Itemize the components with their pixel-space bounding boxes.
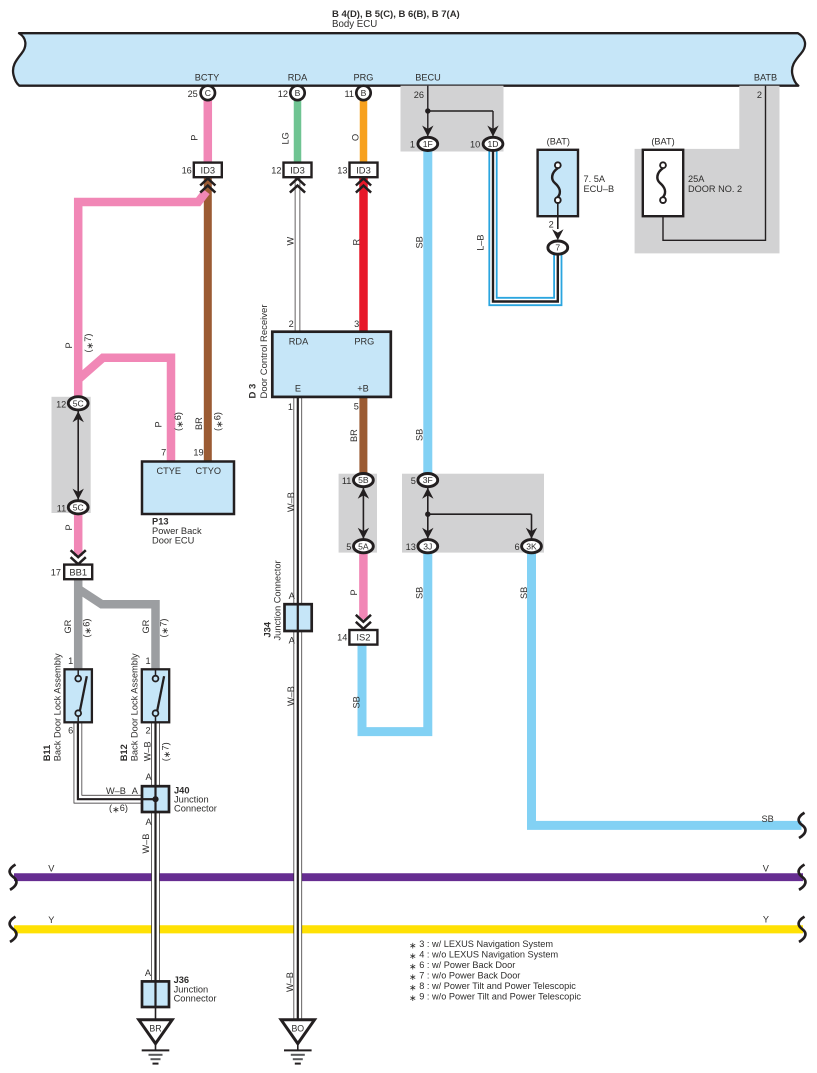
svg-text:ID3: ID3 [290, 164, 305, 175]
svg-text:SB: SB [414, 429, 424, 441]
svg-text:B11: B11 [42, 745, 52, 762]
svg-text:5C: 5C [73, 502, 84, 512]
svg-text:3K: 3K [526, 541, 537, 551]
svg-text:IS2: IS2 [356, 632, 370, 643]
connector BB1 pin 17 [64, 565, 92, 580]
break symbol SB right [799, 813, 806, 838]
svg-text:5: 5 [411, 476, 416, 486]
svg-text:12: 12 [56, 399, 66, 409]
connector oval 7 [548, 241, 568, 254]
break symbol V right [799, 865, 806, 890]
connector oval 5C pin 12 [56, 397, 88, 410]
component B11 Back Door Lock Assembly [65, 669, 92, 722]
fuse 7.5A ECU-B [538, 150, 578, 216]
svg-text:A: A [289, 635, 296, 645]
wire P from 5C pin 11 to BB1 [74, 514, 83, 556]
svg-text:D 3: D 3 [247, 384, 258, 399]
svg-text:W–B: W–B [286, 686, 296, 706]
svg-text:5: 5 [354, 401, 359, 411]
svg-text:A: A [145, 968, 152, 978]
arrow line between 5C ovals [77, 411, 79, 500]
pin 11 B PRG [344, 86, 370, 100]
svg-text:SB: SB [415, 587, 425, 599]
svg-text:2: 2 [289, 319, 294, 329]
wire LG from RDA pin to ID3-12 [294, 99, 302, 164]
svg-text:1: 1 [410, 139, 415, 149]
arrow line between 5B and 5A [362, 488, 364, 540]
BECU pin 26 feed lines [428, 86, 493, 136]
svg-text:(∗6): (∗6) [173, 412, 185, 431]
svg-text:P: P [64, 342, 74, 348]
junction dot BECU feed [425, 108, 430, 113]
grey box connector 1F/1D [401, 86, 504, 152]
svg-text:Body ECU: Body ECU [332, 19, 377, 30]
wire GR from BB1 to B11 pin 1 [74, 578, 83, 670]
wire BR from ID3-16 to CTYO pin 19 [204, 178, 212, 462]
svg-text:(∗6): (∗6) [109, 803, 128, 815]
wire P from 5A to IS2 [359, 553, 368, 620]
pin 25 C BCTY [188, 86, 215, 100]
svg-text:2: 2 [549, 220, 554, 230]
svg-text:BR: BR [194, 417, 204, 430]
svg-text:RDA: RDA [288, 73, 308, 83]
ground BO [281, 1020, 314, 1064]
svg-text:11: 11 [344, 89, 354, 99]
pin 12 B RDA [278, 86, 305, 100]
wire V horizontal [14, 873, 803, 881]
svg-text:B: B [295, 88, 301, 98]
svg-text:5: 5 [346, 542, 351, 552]
svg-text:B12: B12 [119, 744, 129, 761]
wire W-B from E pin 1 to ground BO [293, 396, 302, 1020]
wire O from PRG pin to ID3-13 [360, 99, 368, 164]
svg-text:P13: P13 [152, 516, 169, 526]
connector ID3 pin 12 [284, 163, 312, 178]
svg-text:W–B: W–B [285, 972, 295, 992]
svg-text:BR: BR [149, 1023, 161, 1033]
svg-text:P: P [154, 421, 164, 427]
svg-text:SB: SB [352, 696, 362, 708]
svg-text:V: V [763, 863, 770, 873]
fuse 25A DOOR NO.2 [643, 150, 683, 216]
svg-text:W–B: W–B [141, 834, 151, 854]
svg-text:R: R [352, 239, 362, 246]
svg-text:A: A [146, 817, 153, 827]
svg-text:∗ 9 : w/o Power Tilt and Power: ∗ 9 : w/o Power Tilt and Power Telescopi… [409, 992, 581, 1003]
arrow lines 3F 3J 3K [428, 488, 532, 539]
component P13 Power Back Door ECU [142, 462, 234, 515]
svg-text:1D: 1D [488, 139, 499, 149]
svg-text:A: A [132, 786, 139, 796]
svg-text:11: 11 [342, 476, 352, 486]
svg-text:5A: 5A [358, 541, 369, 551]
svg-text:W–B: W–B [286, 492, 296, 512]
footnotes [409, 939, 581, 1003]
junction connector J40 [142, 786, 169, 812]
wire P branch to CTYE pin 7 [78, 358, 171, 462]
svg-text:Connector: Connector [174, 994, 217, 1004]
svg-text:PRG: PRG [354, 336, 374, 346]
svg-text:SB: SB [414, 236, 424, 248]
svg-text:ID3: ID3 [201, 164, 216, 175]
arrow into 1F [422, 125, 433, 136]
fuse ECU-B pin 2 line [557, 203, 559, 229]
svg-text:C: C [205, 88, 211, 98]
wire W-B from B12 pin 2 to J40 [151, 722, 160, 788]
connector oval 1F [410, 137, 438, 150]
connector ID3 pin 13 [350, 163, 378, 178]
wire P from BCTY pin to ID3-16 [204, 99, 213, 164]
svg-text:(∗7): (∗7) [158, 619, 170, 638]
svg-text:Door Control Receiver: Door Control Receiver [259, 305, 270, 399]
svg-text:Door ECU: Door ECU [152, 535, 194, 545]
svg-text:12: 12 [271, 165, 281, 175]
connector ID3 pin 16 [194, 163, 222, 178]
junction dot 3F [425, 512, 430, 517]
grey box connector 3F/3J/3K [402, 474, 544, 553]
svg-text:14: 14 [337, 633, 347, 643]
connector oval 5C pin 11 [57, 501, 88, 514]
wire SB from IS2 to 3J [362, 553, 428, 732]
svg-text:V: V [48, 863, 55, 873]
svg-text:GR: GR [63, 619, 73, 633]
svg-text:Y: Y [48, 915, 54, 925]
svg-text:3: 3 [354, 319, 359, 329]
Body ECU bus band [13, 33, 805, 85]
svg-text:7: 7 [555, 243, 560, 253]
svg-text:Back Door Lock Assembly: Back Door Lock Assembly [129, 653, 139, 761]
svg-text:16: 16 [182, 165, 192, 175]
svg-text:BR: BR [349, 429, 359, 442]
svg-text:BB1: BB1 [69, 566, 87, 577]
connector oval 3F pin 5 [411, 474, 438, 487]
wire J36 to ground BR [155, 1007, 157, 1020]
svg-text:W: W [285, 237, 295, 246]
connector oval 5A pin 5 [346, 540, 373, 553]
svg-text:ECU–B: ECU–B [584, 184, 615, 194]
connector oval 5B pin 11 [342, 474, 373, 487]
component B12 Back Door Lock Assembly [142, 669, 169, 722]
svg-text:B: B [361, 88, 367, 98]
svg-text:7. 5A: 7. 5A [584, 174, 606, 184]
svg-text:1: 1 [288, 402, 293, 412]
arrow into connector 7 [552, 229, 563, 240]
svg-text:P: P [64, 524, 74, 530]
svg-text:(∗7): (∗7) [83, 334, 95, 353]
svg-text:DOOR NO. 2: DOOR NO. 2 [688, 184, 742, 194]
svg-text:A: A [146, 772, 153, 782]
break symbol Y right [799, 917, 806, 942]
connector IS2 pin 14 [349, 630, 377, 645]
svg-text:5B: 5B [358, 475, 369, 485]
svg-text:ID3: ID3 [356, 164, 371, 175]
grey region BATB feed [635, 86, 780, 254]
svg-text:Back Door Lock Assembly: Back Door Lock Assembly [52, 653, 62, 761]
svg-text:2: 2 [757, 90, 762, 100]
svg-text:(∗6): (∗6) [213, 412, 225, 431]
ground BR [139, 1020, 172, 1064]
svg-text:6: 6 [514, 542, 519, 552]
svg-text:(BAT): (BAT) [547, 137, 570, 147]
svg-text:3J: 3J [423, 541, 432, 551]
wire P branch from ID3-16 to connector 5C pin 12 [78, 192, 206, 399]
svg-text:3F: 3F [423, 475, 433, 485]
svg-text:11: 11 [57, 503, 67, 513]
break symbol Y left [10, 917, 17, 942]
wire W-B from B11 pin 6 to J40 [78, 722, 142, 800]
BATB pin 2 feed line [663, 86, 766, 241]
svg-text:+B: +B [357, 383, 369, 393]
svg-text:6: 6 [68, 725, 73, 735]
svg-text:17: 17 [51, 567, 61, 577]
svg-text:10: 10 [470, 139, 480, 149]
svg-text:LG: LG [281, 132, 291, 144]
svg-text:GR: GR [141, 619, 151, 633]
connector oval 1D [470, 137, 503, 150]
wire L-B from 1D to connector 7 [493, 150, 558, 302]
svg-text:SB: SB [761, 814, 773, 824]
svg-text:7: 7 [161, 447, 166, 457]
svg-text:Y: Y [763, 915, 769, 925]
svg-text:(∗7): (∗7) [160, 742, 172, 761]
svg-text:(∗6): (∗6) [81, 619, 93, 638]
svg-text:RDA: RDA [289, 336, 309, 346]
svg-text:5C: 5C [73, 398, 84, 408]
svg-text:1: 1 [145, 656, 150, 666]
svg-text:13: 13 [337, 165, 347, 175]
wire BR from +B pin 5 to 5B [359, 396, 367, 473]
grey box connector 5B/5A [339, 474, 377, 553]
wire R from ID3-13 to PRG pin 3 [359, 177, 368, 333]
svg-text:P: P [190, 135, 200, 141]
svg-text:BCTY: BCTY [195, 73, 220, 83]
arrow into 1D [487, 125, 498, 136]
connector oval 3K pin 6 [514, 540, 541, 553]
wire Y horizontal [14, 925, 803, 933]
chevrons ID3-12 [290, 179, 305, 186]
svg-text:PRG: PRG [354, 73, 374, 83]
svg-text:E: E [295, 383, 301, 393]
svg-text:CTYO: CTYO [196, 466, 222, 476]
connector oval 3J pin 13 [406, 540, 438, 553]
svg-text:26: 26 [414, 90, 424, 100]
wire W-B from J40 to J36 [151, 811, 160, 983]
junction connector J36 [142, 981, 169, 1007]
svg-text:P: P [349, 589, 359, 595]
svg-text:BO: BO [291, 1023, 304, 1033]
svg-text:12: 12 [278, 89, 288, 99]
svg-text:W–B: W–B [143, 741, 153, 761]
svg-text:(BAT): (BAT) [651, 137, 674, 147]
svg-text:O: O [351, 134, 361, 141]
chevrons ID3-13 [356, 179, 371, 186]
chevrons into IS2 [356, 615, 371, 622]
chevrons ID3-16 [200, 179, 215, 186]
svg-text:J34: J34 [262, 621, 272, 637]
grey box connector 5C [52, 397, 91, 513]
component D3 Door Control Receiver [272, 332, 391, 397]
svg-text:13: 13 [406, 542, 416, 552]
svg-text:Connector: Connector [174, 804, 217, 814]
svg-text:BATB: BATB [754, 73, 777, 83]
junction connector J34 [285, 604, 312, 631]
svg-text:2: 2 [145, 725, 150, 735]
svg-text:W–B: W–B [106, 786, 126, 796]
svg-text:CTYE: CTYE [157, 466, 182, 476]
svg-text:1: 1 [68, 656, 73, 666]
break symbol V left [10, 865, 17, 890]
svg-text:25A: 25A [688, 174, 705, 184]
chevrons into BB1 [71, 550, 86, 557]
svg-text:BECU: BECU [415, 73, 441, 83]
wire SB from 1F to 3F [423, 150, 432, 473]
svg-text:A: A [289, 591, 296, 601]
svg-text:19: 19 [193, 447, 203, 457]
wire SB from 3K to right edge [532, 553, 802, 825]
wire GR branch from BB1 to B12 pin 1 [79, 590, 155, 671]
svg-text:1F: 1F [423, 139, 433, 149]
svg-text:Junction Connector: Junction Connector [273, 560, 283, 640]
svg-text:25: 25 [188, 89, 198, 99]
svg-text:SB: SB [519, 587, 529, 599]
svg-text:L–B: L–B [475, 234, 485, 250]
wire W from ID3-12 to RDA pin 2 [295, 177, 301, 333]
